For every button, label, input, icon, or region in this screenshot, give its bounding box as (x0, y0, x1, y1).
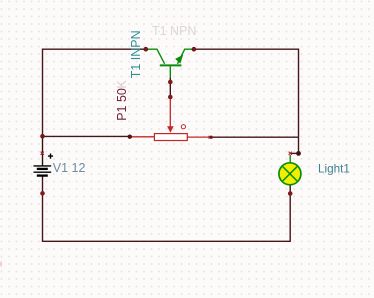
wire: left rail from top-left corner down to battery top (43, 49, 146, 136)
lamp Light1 X stroke 1 (283, 167, 297, 181)
cross mark at collector junction (144, 48, 147, 51)
battery pin cross mark (41, 152, 44, 155)
wire: battery bottom to bottom rail to lamp bottom (43, 176, 291, 241)
junction dot at transistor collector (144, 47, 149, 52)
potentiometer P1 wiper stem (169, 98, 171, 127)
potentiometer P1 wiper circle marker (181, 125, 185, 129)
wire: lamp top link (290, 152, 298, 154)
lamp Light1 top pin (289, 155, 291, 163)
lamp Light1 X stroke 2 (283, 167, 297, 181)
potentiometer right pin cross mark (209, 136, 212, 139)
junction dot at potentiometer left pin (128, 135, 132, 139)
battery V1 plate long lower (34, 171, 52, 173)
wire: transistor base to potentiometer wiper link (169, 78, 171, 98)
junction dot at potentiometer right pin (210, 136, 213, 139)
svg-text:T1 NPN: T1 NPN (152, 24, 196, 38)
battery plus sign (48, 154, 53, 159)
wire: top-right segment from transistor emitter to right rail down to lamp junction (194, 49, 299, 153)
svg-text:T1 INPN: T1 INPN (129, 30, 143, 78)
transistor T1 collector leg (147, 49, 164, 64)
wire: middle left segment battery top to potentiometer left pin (43, 135, 130, 137)
svg-text:Light1: Light1 (318, 163, 350, 176)
wire: middle right segment potentiometer right pin to right rail (211, 136, 299, 138)
junction dot at right rail lamp corner (296, 151, 301, 156)
svg-text:K: K (115, 80, 129, 89)
junction dot at transistor base pin (168, 80, 173, 85)
svg-text:P1 50: P1 50 (115, 88, 129, 121)
battery V1 plate short thick upper (37, 168, 48, 170)
potentiometer P1 left pin (131, 136, 155, 138)
junction dot at lamp bottom pin (288, 191, 293, 196)
junction dot at battery top (40, 134, 45, 139)
junction dot at transistor emitter (192, 47, 197, 52)
stray pink mark at left edge (0, 262, 2, 267)
junction dot at potentiometer wiper pin (168, 95, 173, 100)
transistor T1 emitter arrow (175, 55, 183, 64)
transistor T1 emitter leg (178, 49, 193, 64)
junction dot at battery bottom pin (40, 191, 45, 196)
lamp Light1 body circle (279, 163, 301, 185)
lamp Light1 pin cross mark (289, 152, 292, 155)
svg-text:V1 12: V1 12 (53, 161, 86, 175)
potentiometer P1 wiper arrowhead (167, 126, 174, 133)
potentiometer P1 body rectangle (154, 134, 187, 141)
transistor T1 base bar (160, 64, 182, 66)
potentiometer P1 right pin (187, 136, 210, 138)
transistor T1 base pin (169, 66, 171, 78)
battery V1 plate short thick bottom (37, 174, 48, 176)
cross mark at emitter junction (192, 48, 195, 51)
wire: battery top pin stub (42, 136, 44, 166)
battery V1 plate long top (34, 165, 52, 167)
